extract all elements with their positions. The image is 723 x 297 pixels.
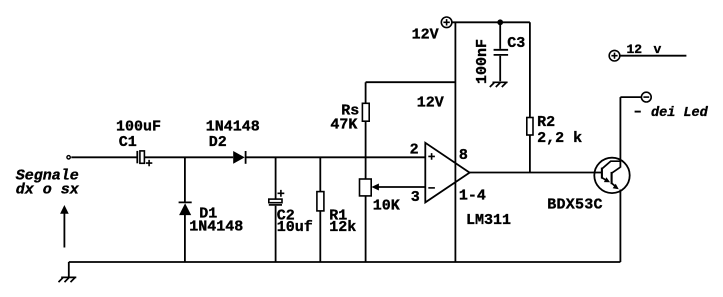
svg-text:v: v	[654, 42, 662, 57]
svg-text:8: 8	[459, 147, 468, 164]
svg-text:1-4: 1-4	[459, 188, 486, 205]
svg-text:1N4148: 1N4148	[206, 119, 260, 136]
svg-text:1N4148: 1N4148	[189, 219, 243, 236]
svg-text:R2: R2	[537, 114, 555, 131]
svg-text:2,2 k: 2,2 k	[537, 130, 582, 147]
svg-text:dei Led: dei Led	[651, 106, 709, 121]
svg-text:12V: 12V	[412, 27, 439, 44]
svg-text:10uf: 10uf	[277, 219, 313, 236]
svg-text:12: 12	[627, 42, 643, 57]
svg-text:100uF: 100uF	[116, 119, 161, 136]
svg-text:D2: D2	[209, 134, 227, 151]
svg-text:10K: 10K	[373, 198, 400, 215]
svg-text:47K: 47K	[330, 117, 357, 134]
svg-text:12k: 12k	[329, 219, 356, 236]
svg-text:100nF: 100nF	[474, 39, 491, 84]
svg-text:3: 3	[411, 189, 420, 206]
svg-text:BDX53C: BDX53C	[547, 197, 603, 214]
svg-text:12V: 12V	[417, 94, 444, 111]
svg-text:dx o sx: dx o sx	[16, 182, 80, 199]
svg-text:LM311: LM311	[466, 212, 511, 229]
svg-text:2: 2	[410, 141, 419, 158]
svg-text:C1: C1	[119, 134, 137, 151]
svg-text:C3: C3	[507, 35, 525, 52]
